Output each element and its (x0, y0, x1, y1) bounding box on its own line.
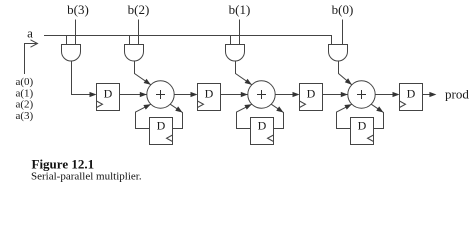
wire adder A2 output to register R3 (275, 92, 299, 97)
AND gate U3 (226, 45, 245, 62)
svg-text:b(0): b(0) (332, 2, 354, 17)
svg-text:Figure 12.1: Figure 12.1 (32, 156, 95, 171)
svg-text:a(3): a(3) (16, 110, 34, 122)
wire b(0) vertical (342, 20, 344, 45)
wire gate U2 output to adder A1 (135, 61, 151, 85)
svg-text:Serial-parallel multiplier.: Serial-parallel multiplier. (31, 171, 142, 183)
AND gate U1 (62, 45, 81, 62)
wire adder A1 carry out to feedback register R5 (170, 104, 182, 128)
wire feedback register R7 output to adder A3 (337, 104, 352, 128)
wire register R3 output to adder A3 (323, 92, 348, 97)
wire register R4 output to prod (423, 92, 437, 97)
register R1 (D flip-flop) (97, 84, 120, 111)
svg-text:b(1): b(1) (229, 2, 251, 17)
AND gate U4 (329, 45, 348, 62)
wire b(2) vertical (138, 20, 140, 45)
adder A2 (248, 81, 275, 108)
wire adder A3 output to register R4 (375, 92, 399, 97)
svg-text:b(2): b(2) (128, 2, 150, 17)
svg-text:D: D (307, 87, 316, 101)
svg-text:D: D (358, 118, 367, 132)
wire adder A2 carry out to feedback register R6 (271, 104, 283, 128)
register R3 (D flip-flop) (300, 84, 323, 111)
feedback register R7 (carry D flip-flop) (351, 118, 374, 145)
svg-text:a: a (27, 26, 33, 41)
adder A1 (147, 81, 174, 108)
wire a-line tap to gate U3 (230, 36, 232, 45)
svg-text:D: D (258, 118, 267, 132)
adder A3 (348, 81, 375, 108)
svg-text:a(0): a(0) (16, 76, 34, 88)
svg-text:a(2): a(2) (16, 99, 34, 111)
feedback register R5 (carry D flip-flop) (150, 118, 173, 145)
svg-text:D: D (407, 87, 416, 101)
wire a-line tap to gate U2 (129, 36, 131, 45)
serial-order arrow (a(0)..a(3) shift direction) (25, 40, 38, 74)
wire b(1) vertical (239, 20, 241, 45)
wire adder A1 output to register R2 (174, 92, 197, 97)
svg-text:prod: prod (445, 87, 469, 102)
wire adder A3 carry out to feedback register R7 (371, 104, 383, 128)
wire register R1 output to adder A1 (120, 92, 147, 97)
wire feedback register R6 output to adder A2 (237, 104, 252, 128)
svg-text:D: D (157, 118, 166, 132)
svg-text:a(1): a(1) (16, 87, 34, 99)
register R2 (D flip-flop) (198, 84, 221, 111)
wire gate U3 output to adder A2 (236, 61, 252, 85)
wire b(3) vertical (75, 20, 77, 45)
wire gate U4 output to adder A3 (339, 61, 352, 85)
register R4 (D flip-flop) (400, 84, 423, 111)
svg-text:b(3): b(3) (67, 2, 89, 17)
feedback register R6 (carry D flip-flop) (251, 118, 274, 145)
AND gate U2 (125, 45, 144, 62)
wire register R2 output to adder A2 (221, 92, 248, 97)
wire gate U1 output to register R1 (72, 61, 97, 97)
wire a-line tap to gate U1 (66, 36, 68, 45)
wire a-line (44, 36, 332, 45)
svg-text:D: D (205, 87, 214, 101)
svg-text:D: D (104, 87, 113, 101)
wire feedback register R5 output to adder A1 (136, 104, 151, 128)
